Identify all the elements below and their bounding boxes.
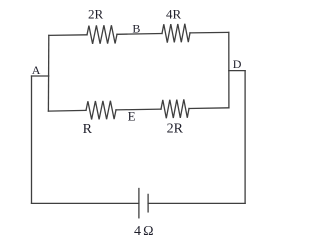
svg-text:B: B	[132, 21, 140, 35]
resistor R (bottom branch, left)	[86, 101, 116, 120]
svg-text:2R: 2R	[167, 121, 184, 136]
wire: bottom branch left lead	[48, 109, 86, 112]
svg-text:D: D	[233, 57, 242, 71]
wire: right outer vertical (bottom-right corner up to D)	[244, 71, 246, 204]
resistor 2R (top branch, left)	[87, 25, 117, 44]
wire: top branch right lead	[190, 31, 229, 34]
svg-text:4 Ω: 4 Ω	[134, 224, 153, 239]
wire: bottom wire right segment (battery to corner)	[148, 202, 245, 204]
wire: node A tick (left outer to inner-left vertical)	[32, 75, 49, 77]
resistor 2R (bottom branch, right)	[161, 99, 189, 118]
wire: bottom branch middle segment (through node E)	[116, 108, 161, 111]
wire: bottom wire left segment (corner to battery)	[32, 202, 139, 204]
svg-text:R: R	[83, 122, 93, 137]
svg-text:A: A	[32, 63, 41, 77]
wire: left outer vertical (A down to bottom-left corner)	[31, 76, 33, 203]
battery left plate (long)	[138, 189, 140, 218]
svg-text:2R: 2R	[88, 6, 104, 21]
wire: top branch left lead	[49, 34, 87, 37]
resistor 4R (top branch, right)	[162, 24, 190, 43]
wire: inner-left vertical	[47, 35, 49, 111]
svg-text:E: E	[128, 109, 136, 124]
battery right plate (short)	[147, 194, 149, 212]
wire: top branch middle segment (through node B)	[117, 33, 162, 36]
wire: bottom branch right lead	[189, 107, 229, 110]
wire: inner-right vertical	[228, 32, 230, 107]
svg-text:4R: 4R	[166, 7, 182, 22]
wire: node D tick (inner-right vertical to right outer)	[229, 70, 245, 72]
